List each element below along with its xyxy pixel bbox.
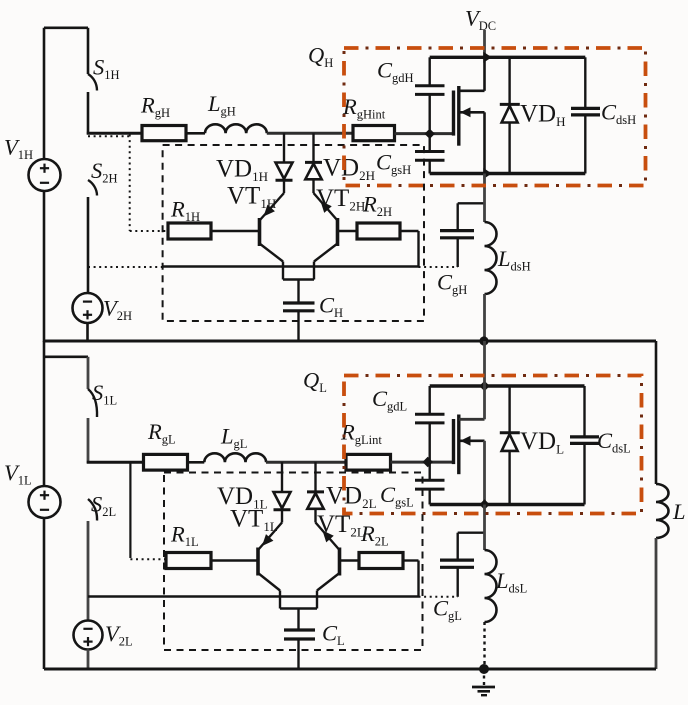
- transistor VT2L: [316, 523, 340, 591]
- mosfet QH channel bar: [457, 86, 460, 146]
- node VDC junction: [483, 52, 491, 63]
- transistor VT1L: [258, 523, 282, 591]
- label CdsL: [597, 428, 631, 456]
- label LdsH: [497, 246, 531, 274]
- switch S1L: [88, 389, 97, 417]
- label CL: [322, 621, 345, 649]
- mosfet QH gate bar: [452, 91, 455, 136]
- wire switch rail upper L: [87, 357, 90, 389]
- label QH: [308, 43, 333, 71]
- dotted wire to R1L horizontal: [130, 558, 166, 560]
- wire to CL: [297, 609, 299, 631]
- wire gate node to CgsL: [429, 462, 431, 480]
- label V2H: [103, 296, 132, 324]
- capacitor CgH: [440, 203, 485, 267]
- wire below S2H: [87, 197, 90, 293]
- capacitor CL: [284, 630, 315, 639]
- driver dashed box L: [164, 473, 423, 651]
- label VT1L: [230, 506, 278, 535]
- wire QH cell right upper: [584, 57, 586, 108]
- inductor LdsH: [485, 222, 497, 294]
- label CgdL: [372, 386, 407, 414]
- mosfet QL channel bar: [457, 415, 460, 475]
- wire QH cell right lower: [584, 115, 586, 174]
- wire between switches: [87, 92, 90, 135]
- label LgL: [220, 424, 247, 452]
- label S2H: [91, 158, 118, 186]
- wire emitter connector L: [280, 607, 317, 609]
- label VD1H: [216, 156, 268, 185]
- wire R2H to rail: [400, 231, 419, 267]
- diode VDL: [500, 386, 520, 505]
- wire QL cell bottom rail: [430, 503, 585, 506]
- capacitor CgL: [440, 533, 485, 597]
- switch S2H: [88, 180, 97, 196]
- capacitor CgsH: [415, 152, 445, 161]
- resistor R2L: [359, 553, 403, 569]
- diode VD1L: [274, 462, 291, 522]
- mosfet QL source lead: [459, 436, 485, 505]
- wire left rail upper (V1H branch): [43, 28, 46, 160]
- resistor R1H: [168, 223, 211, 239]
- label VT1H: [227, 183, 276, 212]
- wire emitter connector: [283, 278, 314, 280]
- capacitor CgdL: [415, 414, 445, 423]
- label S2L: [91, 492, 116, 520]
- label CgL: [433, 596, 462, 624]
- label RgL: [147, 419, 176, 447]
- wire right rail lower: [655, 538, 658, 669]
- capacitor CdsL: [570, 437, 599, 444]
- wire common rail L: [88, 595, 419, 597]
- wire gate node to CgsH: [429, 134, 431, 152]
- label CgdH: [377, 58, 414, 86]
- wire VDC lead: [483, 30, 486, 57]
- wire LgH to RgHint: [267, 132, 353, 135]
- wire bottom rail: [44, 668, 656, 671]
- label S1L: [92, 380, 117, 408]
- label RgH: [140, 93, 170, 121]
- ground: [472, 669, 495, 695]
- wire QL cell top rail: [430, 384, 585, 387]
- mosfet QH drain lead: [459, 57, 485, 91]
- wire source bus lower: [483, 294, 486, 342]
- label R2L: [360, 521, 389, 549]
- label L: [672, 499, 686, 524]
- inductor LgH: [205, 124, 267, 133]
- wire top rail L: [44, 355, 88, 358]
- label S1H: [93, 55, 120, 83]
- wire below S2L: [87, 521, 90, 621]
- dotted wire to R1H vertical: [129, 135, 131, 232]
- capacitor CdsH: [571, 108, 600, 115]
- wire R1L to VT1L base: [211, 559, 257, 561]
- node gate junction L: [423, 457, 433, 467]
- node gate junction H: [425, 129, 435, 139]
- label VDH: [520, 101, 566, 130]
- wire mid rail: [44, 340, 656, 343]
- label CgH: [437, 270, 467, 298]
- label CgsL: [380, 482, 414, 510]
- resistor R1L: [166, 553, 211, 569]
- resistor RgL: [144, 454, 188, 470]
- wire R1H to VT1H base: [211, 230, 258, 232]
- wire left rail lower: [43, 191, 46, 342]
- wire left rail lower L: [43, 518, 46, 669]
- wire QH cell top rail: [430, 56, 586, 59]
- node QH source junction: [483, 168, 491, 179]
- wire RgHint to gate: [395, 132, 453, 135]
- wire switch rail upper: [87, 28, 90, 74]
- wire VT2H base to R2H: [338, 230, 358, 232]
- label R1L: [170, 522, 199, 550]
- transistor VT2H: [314, 193, 338, 262]
- label RgHint: [342, 94, 386, 122]
- wire emitter leg right: [313, 262, 315, 280]
- dotted wire rail to CgH: [419, 266, 459, 268]
- transistor VT1H: [260, 193, 285, 262]
- wire V2H to bottom rail: [86, 323, 89, 342]
- wire to R1L vertical: [129, 462, 131, 558]
- diode VD2L: [307, 462, 324, 522]
- wire right rail upper: [655, 341, 658, 484]
- inductor L load: [656, 484, 669, 538]
- voltage source V1H: [29, 159, 61, 191]
- wire LgL to RgLint: [266, 461, 346, 464]
- inductor LgL: [204, 453, 266, 462]
- label R1H: [170, 197, 200, 225]
- capacitor CgsL: [415, 480, 445, 489]
- node ground junction: [479, 664, 489, 674]
- wire RgLint to gate: [391, 461, 453, 464]
- label V2L: [105, 621, 133, 649]
- wire top-left rail: [44, 26, 88, 29]
- label VD2H: [323, 155, 375, 184]
- label V1H: [4, 135, 33, 163]
- wire emitter leg right L: [316, 591, 318, 609]
- label CdsH: [601, 100, 636, 128]
- mosfet QL drain lead: [459, 386, 485, 419]
- wire RgH to LgH: [186, 132, 205, 135]
- wire RgL to LgL: [188, 461, 205, 464]
- label VT2H: [316, 185, 365, 214]
- wire source bus upper: [483, 174, 486, 223]
- label LgH: [207, 91, 236, 119]
- label VD2L: [326, 483, 377, 512]
- label VT2L: [317, 511, 365, 540]
- Q_H orange box: [344, 48, 646, 186]
- wire QL top bus: [483, 341, 486, 386]
- switch S1H: [88, 74, 97, 91]
- wire QH cell bottom rail: [430, 172, 586, 175]
- svg-text:L: L: [672, 499, 686, 524]
- wire QL cell right lower: [583, 443, 585, 504]
- wire QL cell right upper: [583, 386, 585, 437]
- resistor RgH: [142, 126, 186, 141]
- capacitor CH: [283, 303, 315, 311]
- wire source bus lower L: [483, 622, 485, 669]
- wire CgsL to source rail: [429, 489, 431, 504]
- wire R2L to rail: [403, 561, 419, 597]
- driver dashed box H: [163, 145, 424, 321]
- dotted wire S2H to rail: [88, 266, 163, 268]
- wire to CH: [297, 280, 299, 304]
- label VDL: [520, 428, 564, 457]
- voltage source V1L: [29, 486, 61, 518]
- resistor R2H: [357, 223, 400, 239]
- wire QH cell left upper: [429, 57, 431, 86]
- wire between switches L: [87, 418, 90, 464]
- label LdsL: [495, 568, 527, 596]
- mosfet QH source lead: [459, 107, 485, 173]
- dotted wire to R1H horizontal: [130, 230, 168, 232]
- capacitor CgdH: [415, 86, 445, 95]
- wire source bus upper L: [483, 505, 486, 551]
- label CgsH: [376, 150, 411, 178]
- label QL: [303, 368, 327, 396]
- diode VDH: [500, 57, 520, 173]
- label CH: [319, 293, 343, 321]
- wire gate drive H: [87, 132, 142, 135]
- inductor LdsL: [485, 550, 497, 622]
- label V1L: [4, 460, 32, 488]
- diode VD2H: [305, 133, 322, 193]
- wire common rail H: [163, 265, 419, 267]
- label VD1L: [217, 483, 268, 512]
- wire CL to bottom rail: [297, 639, 299, 669]
- voltage source V2L: [74, 621, 103, 650]
- dotted wire S2H branch: [88, 135, 130, 137]
- node QL source junction: [479, 499, 489, 509]
- voltage source V2H: [73, 293, 103, 323]
- wire CgdL to gate node: [429, 423, 431, 462]
- diode VD1H: [276, 133, 293, 193]
- wire VT2L base to R2L: [340, 559, 360, 561]
- dotted wire rail to CgL: [419, 596, 459, 598]
- wire CH to mid rail: [297, 311, 299, 342]
- switch S2L: [88, 499, 97, 521]
- label VDC: [465, 6, 496, 34]
- wire left rail upper L: [43, 341, 46, 487]
- resistor RgHint: [353, 126, 395, 141]
- Q_L orange box: [344, 376, 642, 514]
- wire CgdH to gate node: [429, 94, 431, 133]
- node mid junction: [479, 336, 488, 345]
- wire QL cell left upper: [429, 386, 431, 414]
- resistor RgLint: [346, 454, 391, 470]
- wire gate drive L: [87, 461, 144, 464]
- wire V2L to bottom rail: [87, 649, 90, 669]
- node QL drain junction: [479, 381, 489, 391]
- label R2H: [362, 192, 392, 220]
- mosfet QL gate bar: [452, 419, 455, 464]
- wire emitter leg left L: [279, 591, 281, 609]
- wire CgsH to source rail: [429, 160, 431, 173]
- wire emitter leg left: [282, 262, 284, 280]
- label RgLint: [340, 420, 382, 448]
